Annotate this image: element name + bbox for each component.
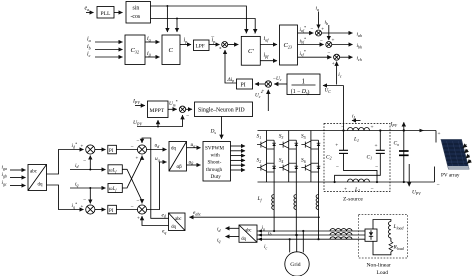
svg-text:C′: C′ (248, 48, 254, 55)
svg-text:iβf: iβf (264, 53, 270, 60)
svg-text:UPV: UPV (133, 120, 142, 126)
svg-text:IPV: IPV (132, 99, 140, 105)
svg-text:ic: ic (338, 72, 342, 78)
svg-text:iq: iq (217, 237, 221, 243)
svg-text:ia: ia (316, 6, 320, 12)
svg-text:+: + (81, 205, 84, 210)
svg-text:Load: Load (377, 270, 389, 276)
svg-text:i̅p: i̅p (210, 36, 215, 44)
svg-text:Grid: Grid (290, 262, 300, 268)
svg-text:icf*: icf* (300, 49, 306, 57)
svg-text:abc: abc (175, 217, 182, 222)
svg-text:−: − (437, 183, 440, 189)
svg-text:ich: ich (357, 56, 362, 62)
svg-text:+: + (371, 125, 374, 131)
svg-text:+: + (81, 145, 84, 150)
svg-text:+: + (438, 131, 441, 137)
svg-text:LPF: LPF (196, 44, 205, 50)
svg-text:abc: abc (245, 228, 252, 233)
svg-text:−: − (341, 125, 344, 131)
svg-text:PI: PI (109, 149, 114, 154)
svg-text:C23: C23 (284, 42, 293, 50)
svg-text:+: + (332, 61, 335, 67)
svg-text:ip: ip (184, 38, 188, 45)
svg-text:ed: ed (162, 212, 166, 218)
svg-text:ib: ib (87, 44, 91, 51)
svg-text:ibh: ibh (357, 43, 363, 49)
svg-text:S2: S2 (257, 158, 262, 164)
svg-text:SVPWM: SVPWM (205, 145, 224, 151)
svg-text:eabc: eabc (193, 210, 201, 216)
svg-text:iah: iah (357, 32, 363, 38)
svg-text:iL: iL (352, 114, 356, 120)
svg-text:PV array: PV array (441, 173, 460, 179)
svg-text:ud: ud (155, 143, 160, 149)
svg-text:ibf*: ibf* (300, 37, 306, 45)
svg-text:sin: sin (133, 6, 140, 12)
svg-text:id*: id* (72, 141, 77, 149)
svg-text:-cos: -cos (131, 14, 141, 20)
svg-text:ia: ia (87, 37, 91, 44)
svg-text:Z-source: Z-source (343, 197, 363, 203)
svg-text:iaf*: iaf* (300, 25, 306, 33)
svg-text:Um*: Um* (169, 99, 178, 107)
svg-text:C2: C2 (326, 154, 332, 160)
svg-text:Uc*: Uc* (255, 91, 262, 99)
svg-text:PI: PI (109, 209, 114, 214)
svg-text:−: − (131, 204, 134, 210)
svg-text:Ds: Ds (210, 129, 217, 135)
svg-text:1: 1 (302, 77, 306, 85)
svg-text:uβ: uβ (189, 159, 194, 165)
svg-text:−: − (83, 159, 86, 165)
svg-text:αβ: αβ (177, 165, 183, 170)
svg-text:PI: PI (241, 83, 246, 89)
svg-text:−: − (320, 38, 323, 44)
svg-text:C: C (169, 47, 174, 54)
svg-text:eq: eq (162, 229, 166, 235)
svg-text:id: id (217, 227, 221, 233)
svg-text:PLL: PLL (101, 11, 112, 17)
svg-text:+: + (332, 38, 335, 44)
svg-text:with: with (211, 153, 221, 159)
svg-text:MPPT: MPPT (150, 108, 165, 114)
svg-text:−: − (311, 27, 314, 33)
svg-text:through: through (206, 167, 223, 173)
svg-text:Rload: Rload (393, 245, 404, 251)
svg-text:iβ: iβ (147, 51, 152, 58)
svg-text:dq: dq (38, 183, 44, 188)
svg-text:ia: ia (262, 225, 266, 231)
svg-text:C32: C32 (131, 47, 140, 55)
svg-text:−: − (375, 165, 378, 171)
svg-text:−: − (136, 199, 139, 205)
svg-text:−: − (136, 139, 139, 145)
svg-text:S6: S6 (301, 158, 306, 164)
svg-text:−Uc: −Uc (273, 76, 282, 82)
svg-text:Duty: Duty (211, 174, 222, 180)
svg-text:L1: L1 (353, 137, 359, 143)
svg-text:S5: S5 (301, 134, 306, 140)
svg-text:−: − (83, 198, 86, 204)
svg-text:igc: igc (2, 180, 7, 186)
svg-text:abc: abc (30, 170, 38, 175)
svg-text:−: − (131, 144, 134, 150)
svg-text:dq: dq (171, 225, 176, 230)
svg-text:+: + (321, 27, 324, 33)
svg-text:dq: dq (241, 237, 246, 242)
svg-text:Single–Neuron PID: Single–Neuron PID (198, 108, 245, 114)
svg-text:S3: S3 (279, 134, 284, 140)
svg-text:iαf: iαf (264, 36, 270, 43)
svg-text:iga: iga (2, 165, 7, 171)
svg-text:+: + (136, 157, 139, 162)
svg-text:Lload: Lload (393, 224, 404, 230)
svg-text:iα: iα (147, 36, 152, 43)
svg-text:*: * (219, 48, 222, 53)
svg-text:−: − (371, 187, 374, 193)
svg-text:Shoot-: Shoot- (208, 160, 222, 166)
svg-text:Non-linear: Non-linear (367, 263, 391, 269)
svg-text:ib: ib (325, 20, 329, 26)
svg-text:ic: ic (87, 52, 91, 59)
svg-text:Δip: Δip (227, 77, 235, 83)
svg-text:−: − (186, 114, 189, 120)
svg-text:C1: C1 (367, 154, 373, 160)
svg-text:−: − (328, 51, 331, 57)
svg-text:iq*: iq* (72, 201, 77, 209)
svg-text:−: − (336, 165, 339, 171)
svg-text:S1: S1 (257, 134, 262, 140)
svg-text:ωLf: ωLf (109, 169, 117, 174)
svg-text:ic: ic (264, 244, 268, 250)
svg-text:iq: iq (75, 181, 79, 187)
svg-text:Lf: Lf (257, 196, 263, 202)
svg-text:Co: Co (394, 141, 400, 147)
svg-text:UC: UC (325, 88, 332, 94)
svg-text:L2: L2 (354, 187, 360, 193)
svg-text:dq: dq (171, 147, 177, 152)
svg-text:IPV: IPV (390, 122, 398, 128)
svg-text:id: id (75, 163, 79, 169)
svg-text:+: + (137, 217, 140, 222)
svg-text:igb: igb (2, 172, 7, 178)
svg-text:+: + (335, 143, 338, 149)
svg-text:ωLf: ωLf (109, 187, 117, 192)
svg-text:+: + (344, 187, 347, 193)
svg-text:UPV: UPV (412, 190, 421, 196)
svg-text:S4: S4 (279, 158, 284, 164)
svg-text:ea: ea (85, 6, 90, 13)
svg-text:+: + (375, 143, 378, 149)
svg-text:uq: uq (155, 156, 160, 162)
